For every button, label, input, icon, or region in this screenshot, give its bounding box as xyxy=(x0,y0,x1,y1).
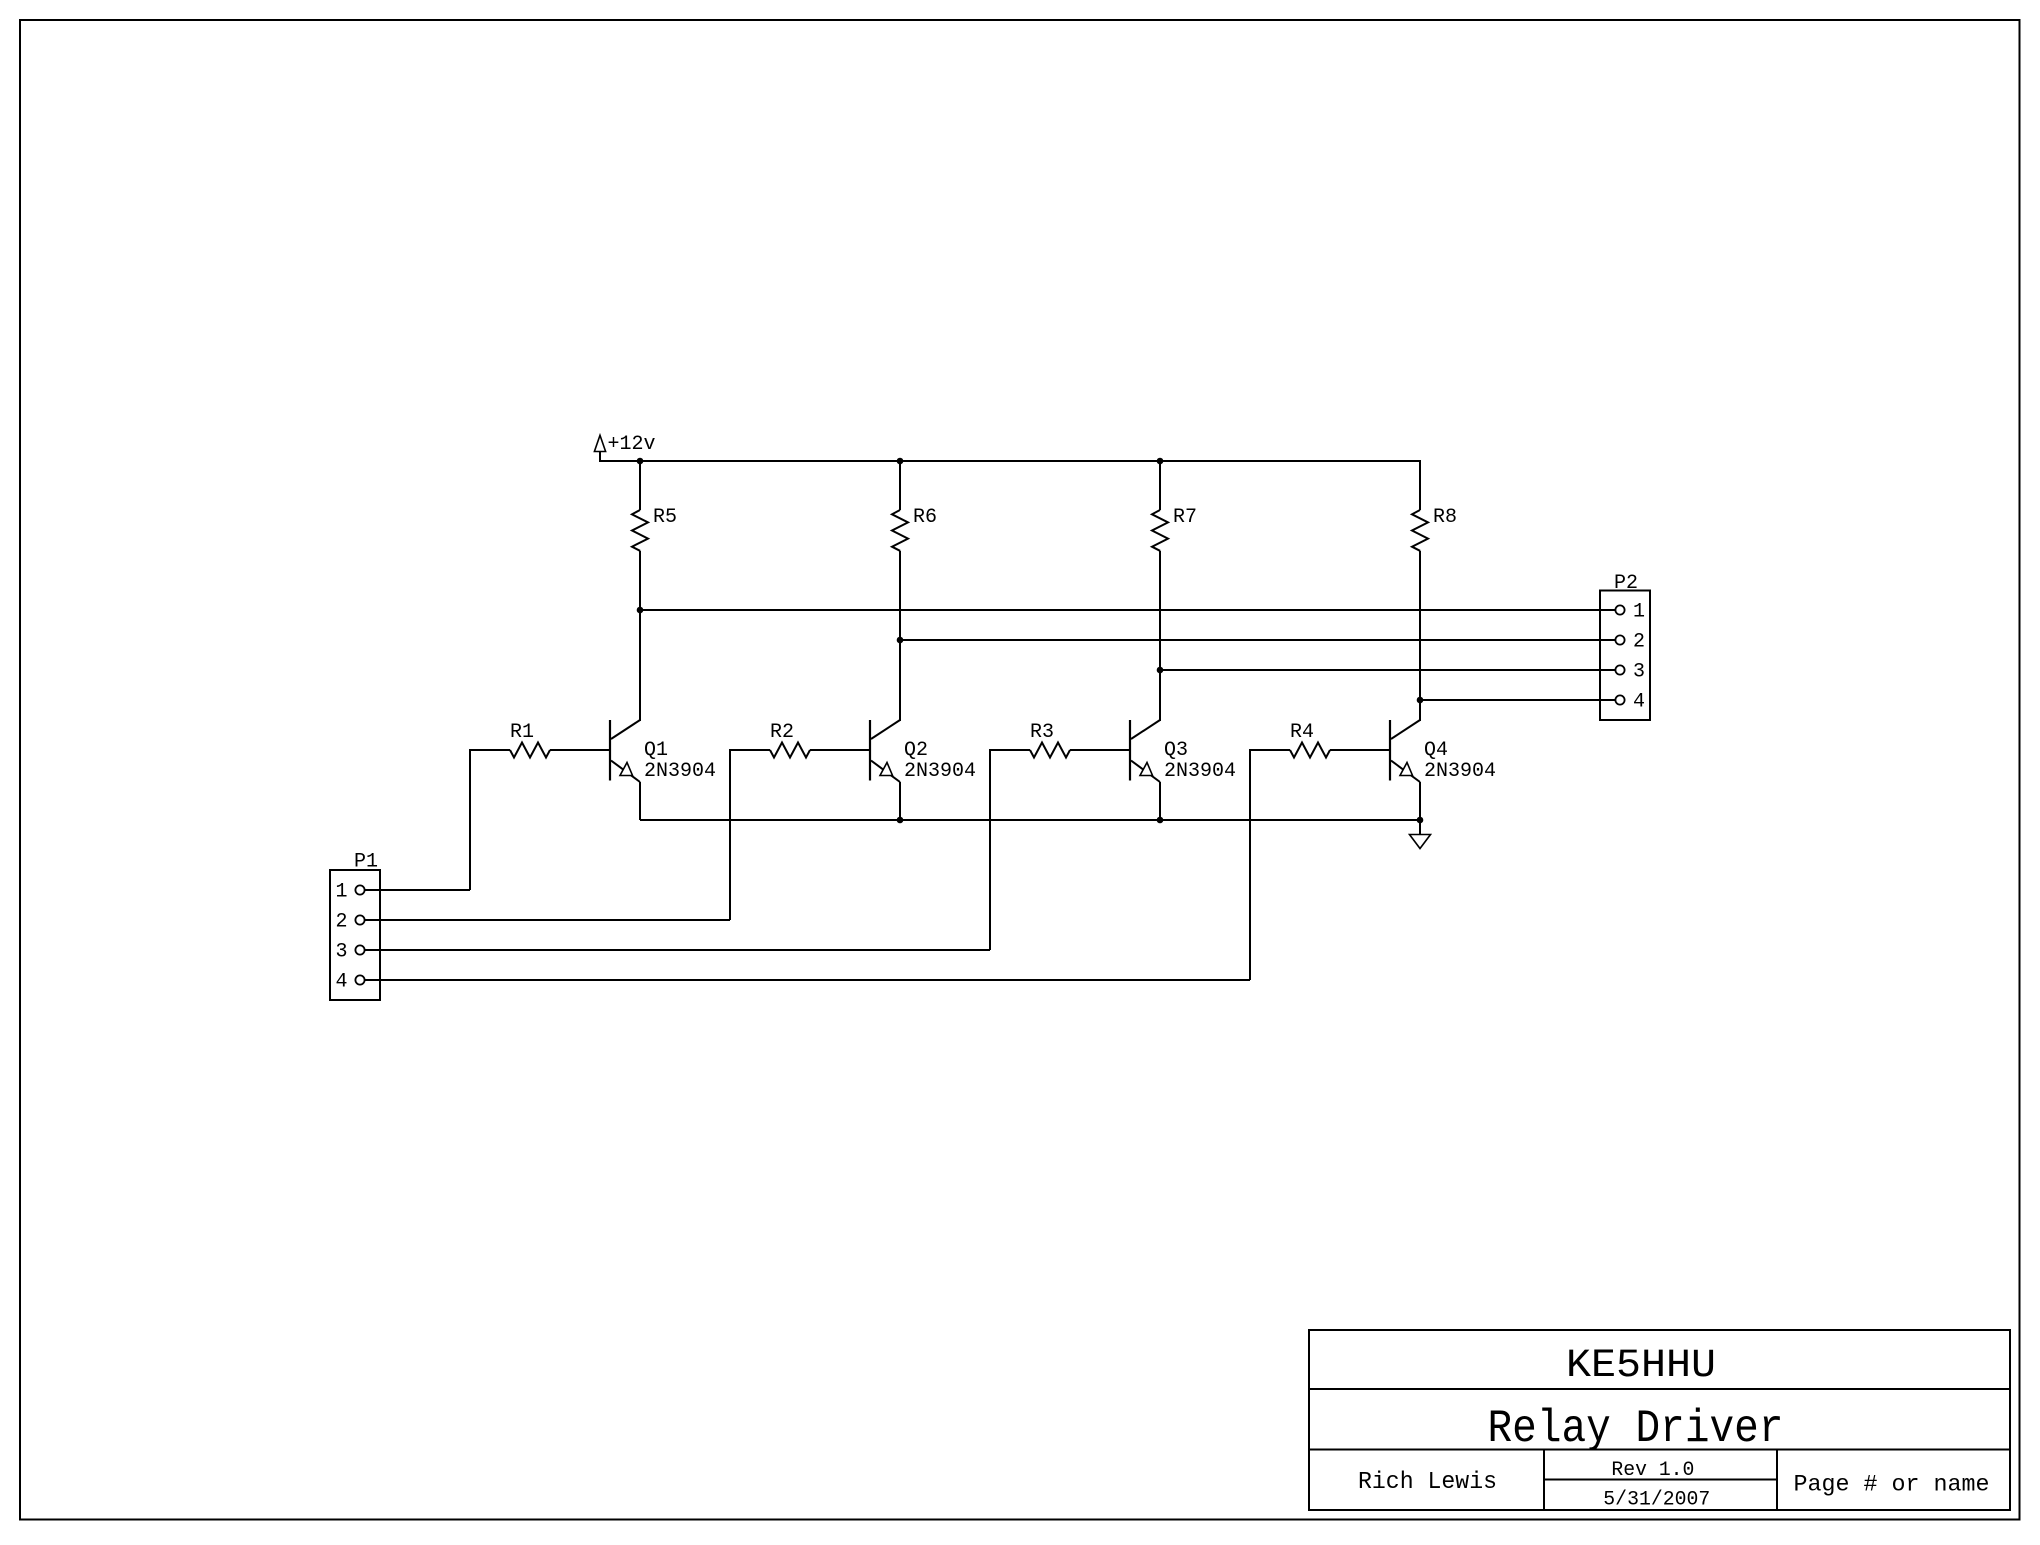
wire R1 to Q1 base xyxy=(550,749,610,751)
wire riser stage 1 xyxy=(469,749,471,890)
resistor R3 xyxy=(1030,743,1070,758)
svg-text:+12v: +12v xyxy=(608,433,656,456)
svg-text:2N3904: 2N3904 xyxy=(904,760,976,783)
resistor R6 xyxy=(892,510,908,551)
svg-text:3: 3 xyxy=(1633,661,1645,684)
svg-text:5/31/2007: 5/31/2007 xyxy=(1603,1489,1710,1512)
wire R5 top lead xyxy=(639,460,641,510)
wire to R1 xyxy=(470,749,510,751)
svg-text:R4: R4 xyxy=(1290,721,1314,744)
wire P1 pin 3 lead xyxy=(365,949,990,951)
wire R7 bottom lead / collector xyxy=(1159,551,1161,721)
wire P1 pin 4 lead xyxy=(365,979,1250,981)
svg-text:2N3904: 2N3904 xyxy=(1164,760,1236,783)
wire riser stage 4 xyxy=(1249,749,1251,980)
svg-text:1: 1 xyxy=(1633,601,1645,624)
transistor Q2 2N3904 xyxy=(870,720,976,820)
wire riser stage 3 xyxy=(989,749,991,950)
resistor R7 xyxy=(1152,510,1168,551)
junction node 3 xyxy=(1157,667,1164,674)
wire R6 bottom lead / collector xyxy=(899,551,901,721)
wire node Q1 collector to P2 pin 1 xyxy=(640,609,1615,611)
resistor R1 xyxy=(510,743,550,758)
ground xyxy=(1410,820,1431,849)
junction rail-R6 xyxy=(897,458,904,465)
svg-text:P1: P1 xyxy=(354,851,378,874)
wire R4 to Q4 base xyxy=(1330,749,1390,751)
svg-text:Rev 1.0: Rev 1.0 xyxy=(1611,1459,1694,1482)
resistor R4 xyxy=(1290,743,1330,758)
junction rail-R7 xyxy=(1157,458,1164,465)
svg-text:Page # or name: Page # or name xyxy=(1794,1472,1990,1499)
junction emitter Q2 xyxy=(897,817,904,824)
svg-text:4: 4 xyxy=(1633,691,1645,714)
title block frame xyxy=(1309,1330,2010,1510)
svg-text:R7: R7 xyxy=(1173,506,1197,529)
resistor R2 xyxy=(770,743,810,758)
transistor Q4 2N3904 xyxy=(1390,720,1496,820)
wire R5 bottom lead / collector xyxy=(639,551,641,721)
svg-text:R3: R3 xyxy=(1030,721,1054,744)
resistor R5 xyxy=(632,510,648,551)
connector P2 xyxy=(1600,591,1650,721)
svg-text:R5: R5 xyxy=(653,506,677,529)
junction rail-R5 xyxy=(637,458,644,465)
svg-text:KE5HHU: KE5HHU xyxy=(1566,1344,1716,1389)
svg-text:1: 1 xyxy=(335,881,347,904)
wire R8 top lead xyxy=(1419,460,1421,510)
wire R8 bottom lead / collector xyxy=(1419,551,1421,721)
wire +12v rail xyxy=(599,460,1420,462)
junction emitter Q3 xyxy=(1157,817,1164,824)
wire node Q2 collector to P2 pin 2 xyxy=(900,639,1615,641)
junction emitter ground xyxy=(1417,817,1424,824)
wire node Q3 collector to P2 pin 3 xyxy=(1160,669,1615,671)
svg-text:R8: R8 xyxy=(1433,506,1457,529)
power symbol +12v xyxy=(594,435,605,451)
junction node 2 xyxy=(897,637,904,644)
svg-text:2N3904: 2N3904 xyxy=(644,760,716,783)
svg-text:Q4: Q4 xyxy=(1424,739,1448,762)
wire to R3 xyxy=(990,749,1030,751)
wire emitter bus xyxy=(640,819,1420,821)
wire riser stage 2 xyxy=(729,749,731,920)
junction node 4 xyxy=(1417,697,1424,704)
svg-text:Q2: Q2 xyxy=(904,739,928,762)
wire R3 to Q3 base xyxy=(1070,749,1130,751)
junction node 1 xyxy=(637,607,644,614)
svg-text:R1: R1 xyxy=(510,721,534,744)
svg-text:P2: P2 xyxy=(1614,572,1638,595)
svg-text:3: 3 xyxy=(335,941,347,964)
svg-text:Q3: Q3 xyxy=(1164,739,1188,762)
wire P1 pin 2 lead xyxy=(365,919,730,921)
wire P1 pin 1 lead xyxy=(365,889,470,891)
wire xyxy=(599,452,601,462)
svg-text:2N3904: 2N3904 xyxy=(1424,760,1496,783)
svg-text:R6: R6 xyxy=(913,506,937,529)
transistor Q1 2N3904 xyxy=(610,720,716,820)
connector P1 xyxy=(330,870,380,1000)
wire node Q4 collector to P2 pin 4 xyxy=(1420,699,1615,701)
svg-text:R2: R2 xyxy=(770,721,794,744)
svg-text:2: 2 xyxy=(335,911,347,934)
wire to R4 xyxy=(1250,749,1290,751)
svg-text:4: 4 xyxy=(335,971,347,994)
svg-text:Relay Driver: Relay Driver xyxy=(1488,1403,1784,1455)
svg-text:2: 2 xyxy=(1633,631,1645,654)
wire to R2 xyxy=(730,749,770,751)
wire R7 top lead xyxy=(1159,460,1161,510)
svg-text:Q1: Q1 xyxy=(644,739,668,762)
svg-text:Rich Lewis: Rich Lewis xyxy=(1358,1469,1497,1496)
resistor R8 xyxy=(1412,510,1428,551)
wire R2 to Q2 base xyxy=(810,749,870,751)
wire R6 top lead xyxy=(899,460,901,510)
transistor Q3 2N3904 xyxy=(1130,720,1236,820)
